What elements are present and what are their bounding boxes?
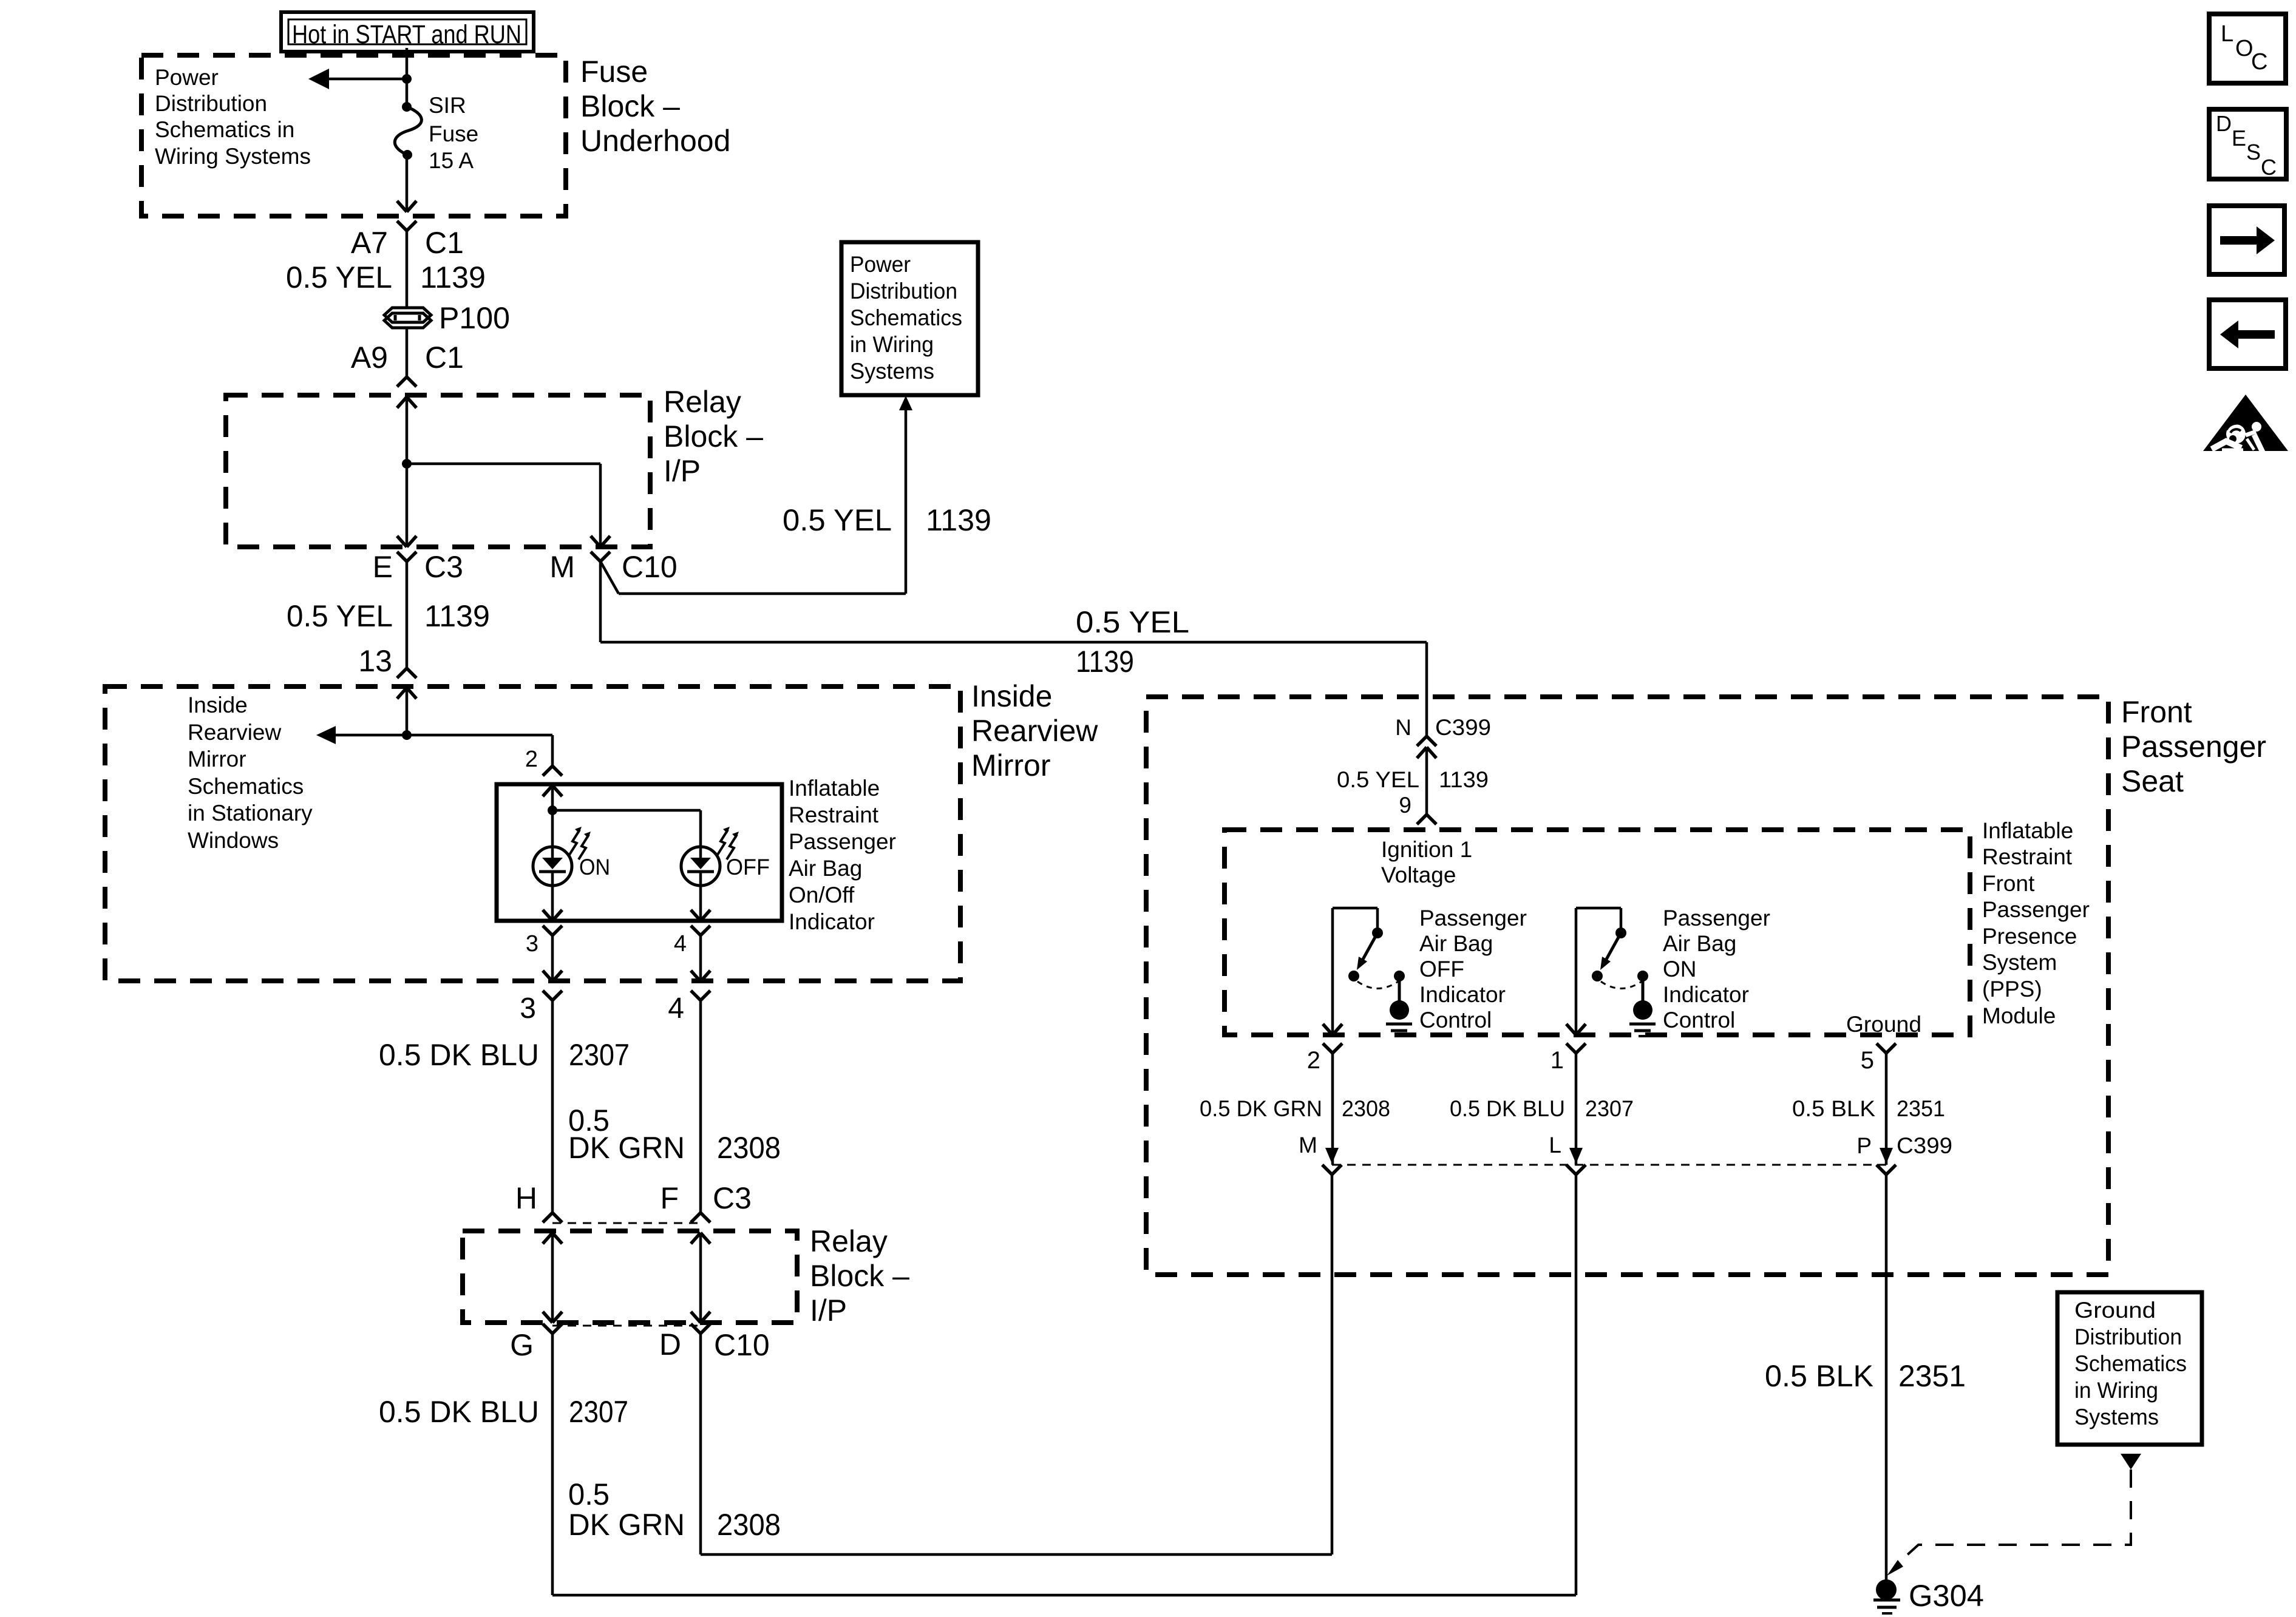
- svg-text:15 A: 15 A: [429, 148, 474, 173]
- switch: passenger air bag OFF indicator control: [1333, 908, 1405, 1035]
- arrow into relay block at F: [691, 1233, 710, 1244]
- icon: SIR warning triangle: [2203, 395, 2288, 455]
- label circuit 1139 (long feed): [1076, 645, 1134, 679]
- label pin M (C399): [1299, 1133, 1317, 1158]
- label: ON: [579, 855, 610, 880]
- svg-text:Block –: Block –: [664, 419, 763, 453]
- arrow exit indicator pin 3: [543, 910, 562, 921]
- label C10 (pin M): [622, 550, 678, 584]
- svg-text:1139: 1139: [1076, 645, 1134, 679]
- arrow into relay block at H: [543, 1233, 562, 1244]
- pass-through grommet P100: [384, 308, 431, 328]
- label pin E: [373, 550, 393, 584]
- note: Inflatable Restraint Front Passenger Presence System (PPS) Module: [1982, 818, 2090, 1028]
- svg-text:Windows: Windows: [188, 828, 279, 853]
- svg-text:2351: 2351: [1898, 1359, 1966, 1393]
- note: Ground (PPS pin 5): [1846, 1012, 1921, 1037]
- svg-text:Distribution: Distribution: [155, 91, 267, 116]
- svg-text:Seat: Seat: [2121, 764, 2184, 798]
- label circuit 1139 (seat): [1439, 767, 1489, 792]
- svg-text:1139: 1139: [926, 503, 991, 537]
- wire: D drop: [699, 1334, 702, 1554]
- svg-text:2307: 2307: [1585, 1096, 1634, 1121]
- wire: DK BLU drop to relay block: [551, 1000, 554, 1213]
- wire: G drop: [551, 1334, 554, 1595]
- connector C1 break below fuse block: [397, 221, 416, 307]
- label: 0.5 YEL (seat): [1337, 767, 1419, 792]
- svg-text:M: M: [549, 550, 575, 584]
- label pin F: [660, 1181, 679, 1215]
- connector C10 tie line: [552, 1325, 701, 1327]
- connector C1 exit arrow (fuse block): [397, 201, 416, 212]
- svg-text:N: N: [1395, 715, 1411, 740]
- svg-text:1139: 1139: [424, 599, 490, 633]
- connector break below mirror box (left): [543, 991, 562, 1000]
- connector C399 tie line: [1332, 1164, 1886, 1166]
- svg-text:13: 13: [358, 644, 392, 678]
- wire: relay block internal branch to M: [407, 464, 600, 547]
- svg-text:ON: ON: [579, 855, 610, 880]
- ground distribution schematics solid box: [2057, 1292, 2202, 1445]
- label circuit 2308 (lower): [717, 1508, 781, 1542]
- fuse F SIR 15 A: [395, 102, 421, 160]
- label C1 (bottom): [425, 341, 464, 375]
- arrow exit PPS at pin 2: [1323, 1024, 1342, 1035]
- svg-text:Rearview: Rearview: [188, 720, 281, 745]
- arrow: to Inside Rearview Mirror Schematics: [316, 726, 407, 744]
- note: Passenger Air Bag ON Indicator Control: [1663, 906, 1770, 1032]
- svg-text:Wiring Systems: Wiring Systems: [155, 144, 311, 169]
- svg-text:Restraint: Restraint: [1982, 844, 2073, 869]
- svg-text:in Wiring: in Wiring: [2074, 1378, 2158, 1403]
- connector C1 break above relay block: [397, 377, 416, 387]
- wire: PPS pin 1 to C399: [1575, 1053, 1578, 1165]
- wire: through relay block (left): [406, 397, 409, 547]
- connector C3 tie line: [552, 1222, 701, 1224]
- svg-text:Block –: Block –: [580, 89, 680, 123]
- svg-text:D: D: [2216, 111, 2232, 136]
- label pin 5 (PPS): [1861, 1047, 1874, 1074]
- junction: mirror feed node: [402, 730, 412, 740]
- wire: feed from Hot label into fuse block: [406, 48, 409, 107]
- svg-text:A9: A9: [351, 341, 388, 375]
- svg-text:G: G: [510, 1328, 534, 1362]
- connector break below indicator pin 3: [543, 926, 562, 935]
- svg-text:Ground: Ground: [2074, 1298, 2156, 1323]
- svg-text:0.5 YEL: 0.5 YEL: [286, 260, 392, 294]
- label: 0.5 BLK (ground drop): [1765, 1359, 1873, 1393]
- svg-text:Relay: Relay: [664, 385, 741, 419]
- label pin D: [659, 1327, 681, 1361]
- wire: E branch down to mirror: [406, 561, 409, 668]
- svg-text:Air Bag: Air Bag: [1663, 931, 1736, 956]
- wire: M branch jog to upper feed: [600, 561, 906, 594]
- svg-text:DK GRN: DK GRN: [568, 1508, 685, 1542]
- label C3 (pin E): [424, 550, 463, 584]
- svg-text:OFF: OFF: [726, 855, 770, 880]
- svg-text:0.5 DK BLU: 0.5 DK BLU: [1450, 1096, 1565, 1121]
- svg-text:Block –: Block –: [810, 1259, 909, 1293]
- label pin 3 (below mirror box): [520, 992, 536, 1025]
- svg-text:C1: C1: [425, 226, 464, 260]
- svg-text:Ground: Ground: [1846, 1012, 1921, 1037]
- svg-text:0.5 BLK: 0.5 BLK: [1792, 1096, 1875, 1121]
- label circuit 1139 (riser): [926, 503, 991, 537]
- wire: DK GRN rail to PPS pin M: [701, 1175, 1332, 1554]
- svg-text:Control: Control: [1663, 1008, 1735, 1032]
- wire: indicator internal feed: [551, 785, 554, 810]
- svg-text:Passenger: Passenger: [2121, 730, 2266, 764]
- label C399 (pin P): [1897, 1133, 1952, 1158]
- svg-text:2: 2: [525, 747, 538, 772]
- label pin 2 (indicator): [525, 747, 538, 772]
- arrow exit mirror box (right): [691, 971, 710, 981]
- svg-text:4: 4: [674, 931, 687, 957]
- svg-text:Distribution: Distribution: [2074, 1324, 2182, 1349]
- label pin 2 (PPS): [1307, 1047, 1320, 1074]
- svg-text:E: E: [373, 550, 393, 584]
- svg-text:C399: C399: [1897, 1133, 1952, 1158]
- svg-text:H: H: [515, 1181, 537, 1215]
- icon box: left arrow: [2209, 300, 2286, 368]
- label pin N: [1395, 715, 1411, 740]
- svg-text:Power: Power: [850, 252, 911, 277]
- svg-text:Relay: Relay: [810, 1224, 888, 1258]
- svg-text:E: E: [2232, 126, 2246, 151]
- connector C3 break above relay block at F: [691, 1213, 710, 1222]
- label pin 1 (PPS): [1550, 1047, 1564, 1074]
- ground G304: [1873, 1579, 1900, 1613]
- PPS module dashed box: [1224, 830, 1970, 1035]
- label pin 9: [1399, 793, 1411, 818]
- label pin 3 (indicator): [526, 931, 538, 957]
- label pin M: [549, 550, 575, 584]
- ground (OFF control internal): [1386, 1000, 1412, 1036]
- note: Inflatable Restraint Passenger Air Bag On/Off Indicator: [789, 776, 896, 934]
- svg-text:2307: 2307: [569, 1395, 628, 1429]
- power distribution schematics solid box: [841, 242, 978, 395]
- label pin H: [515, 1181, 537, 1215]
- connector break below PPS pin 2: [1323, 1043, 1342, 1053]
- connector break below PPS pin 5: [1877, 1043, 1896, 1053]
- svg-text:C399: C399: [1435, 715, 1491, 740]
- svg-text:P: P: [1856, 1133, 1872, 1158]
- svg-text:C1: C1: [425, 341, 464, 375]
- svg-text:Inflatable: Inflatable: [1982, 818, 2073, 843]
- arrow from ground reference to box: [2121, 1454, 2141, 1470]
- label circuit 2351 (ground drop): [1898, 1359, 1966, 1393]
- arrow exit PPS at pin 1: [1566, 1024, 1586, 1035]
- arrow into Power Distribution Schematics box: [899, 396, 912, 410]
- switch: passenger air bag ON indicator control: [1576, 908, 1648, 1035]
- svg-text:Voltage: Voltage: [1381, 863, 1456, 887]
- svg-text:2351: 2351: [1897, 1096, 1945, 1121]
- label: 0.5 YEL (long feed): [1076, 605, 1189, 639]
- icon box: DESC: [2209, 109, 2286, 180]
- label circuit 2351 (seat): [1897, 1096, 1945, 1121]
- label C3 (relay): [713, 1181, 752, 1215]
- svg-text:Passenger: Passenger: [1663, 906, 1770, 931]
- svg-text:Passenger: Passenger: [789, 829, 896, 854]
- svg-text:S: S: [2246, 140, 2261, 164]
- wire: long feed to front passenger seat: [600, 641, 1427, 644]
- label box: Hot in START and RUN: [281, 12, 534, 52]
- svg-text:Fuse: Fuse: [580, 55, 648, 89]
- svg-text:Ignition 1: Ignition 1: [1381, 837, 1472, 862]
- connector C399 arrow at L: [1569, 1148, 1583, 1164]
- svg-text:0.5 YEL: 0.5 YEL: [1076, 605, 1189, 639]
- svg-text:5: 5: [1861, 1047, 1874, 1074]
- arrow exit relay block at M: [591, 536, 610, 547]
- note: Ignition 1 Voltage: [1381, 837, 1472, 887]
- svg-text:Schematics: Schematics: [2074, 1351, 2187, 1376]
- svg-text:C3: C3: [713, 1181, 752, 1215]
- label circuit 2307 (upper): [569, 1038, 630, 1072]
- svg-text:0.5 DK GRN: 0.5 DK GRN: [1200, 1096, 1322, 1121]
- junction: indicator internal node: [548, 805, 557, 815]
- svg-text:1: 1: [1550, 1047, 1564, 1074]
- svg-text:Passenger: Passenger: [1419, 906, 1527, 931]
- svg-text:P100: P100: [439, 301, 510, 335]
- inside rearview mirror dashed box: [105, 686, 960, 981]
- label pin A9: [351, 341, 388, 375]
- svg-text:C3: C3: [424, 550, 463, 584]
- indicator solid box: [497, 784, 782, 921]
- note: Passenger Air Bag OFF Indicator Control: [1419, 906, 1527, 1032]
- svg-text:D: D: [659, 1327, 681, 1361]
- svg-text:SIR: SIR: [429, 93, 466, 118]
- ground reference dashed line: [1887, 1470, 2131, 1576]
- svg-text:0.5 YEL: 0.5 YEL: [287, 599, 393, 633]
- svg-text:L: L: [1549, 1133, 1561, 1158]
- svg-text:System: System: [1982, 950, 2057, 975]
- label: DK GRN (upper): [568, 1131, 685, 1165]
- arrow exit relay block at E: [397, 536, 416, 547]
- svg-text:G304: G304: [1909, 1579, 1984, 1613]
- svg-text:Schematics: Schematics: [188, 774, 304, 799]
- connector C399 arrow at P: [1880, 1148, 1893, 1164]
- label: 0.5 DK GRN (seat): [1200, 1096, 1322, 1121]
- connector C399 break at N (upper half): [1417, 736, 1436, 746]
- label circuit 2307 (lower): [569, 1395, 628, 1429]
- label C399 (pin N): [1435, 715, 1491, 740]
- connector break at indicator pin 2: [543, 766, 562, 776]
- svg-text:in Stationary: in Stationary: [188, 801, 313, 825]
- label circuit 2308 (seat): [1342, 1096, 1390, 1121]
- wire: OFF lamp to pin 4: [699, 886, 702, 921]
- wire: internal to ON lamp: [551, 810, 554, 847]
- svg-text:M: M: [1299, 1133, 1317, 1158]
- connector C3 break above relay block at H: [543, 1213, 562, 1222]
- label pin 4 (indicator): [674, 931, 687, 957]
- svg-text:OFF: OFF: [1419, 957, 1464, 981]
- label pin 13: [358, 644, 392, 678]
- wire: P100 to relay block: [406, 328, 409, 377]
- svg-text:Power: Power: [155, 65, 219, 90]
- note: Inside Rearview Mirror Schematics in Stationary Windows: [188, 693, 313, 853]
- label pin G: [510, 1328, 534, 1362]
- wire: mirror feed to pin 2: [407, 735, 552, 766]
- connector C399 arrow at N (lower half): [1417, 747, 1436, 815]
- wire: DK GRN drop to relay block: [699, 1000, 702, 1213]
- svg-text:ON: ON: [1663, 957, 1697, 981]
- label: 0.5 DK BLU (upper): [379, 1038, 539, 1072]
- svg-text:C10: C10: [622, 550, 678, 584]
- label pin 4 (below mirror box): [668, 992, 684, 1025]
- icon box: right arrow: [2209, 206, 2284, 274]
- svg-text:Systems: Systems: [2074, 1405, 2159, 1429]
- svg-text:0.5 YEL: 0.5 YEL: [783, 503, 892, 537]
- svg-text:Systems: Systems: [850, 359, 934, 384]
- label: G304: [1909, 1579, 1984, 1613]
- svg-text:1139: 1139: [1439, 767, 1489, 792]
- svg-text:Inside: Inside: [971, 679, 1052, 713]
- note: Ground Distribution Schematics in Wiring Systems: [2074, 1298, 2187, 1429]
- label: 0.5 (DK GRN lower): [568, 1477, 610, 1511]
- svg-text:Air Bag: Air Bag: [1419, 931, 1493, 956]
- label: Relay Block - I/P (upper): [664, 385, 763, 488]
- connector C10 break at D: [691, 1324, 710, 1334]
- svg-text:Air Bag: Air Bag: [789, 856, 862, 881]
- svg-text:L: L: [2221, 21, 2233, 47]
- wire: DK BLU rail to PPS pin L: [552, 1175, 1576, 1595]
- wire: ground drop from P: [1885, 1175, 1888, 1580]
- note: Power Distribution Schematics in Wiring Systems (box): [850, 252, 962, 384]
- fuse block - underhood dashed box: [141, 55, 566, 216]
- svg-text:Inside: Inside: [188, 693, 248, 717]
- svg-text:Inflatable: Inflatable: [789, 776, 880, 801]
- connector C399 break below L: [1566, 1165, 1586, 1175]
- label pin P (C399): [1856, 1133, 1872, 1158]
- LED OFF lamp: [681, 847, 720, 886]
- svg-text:2308: 2308: [717, 1131, 781, 1165]
- label: 0.5 (DK GRN upper): [568, 1103, 610, 1137]
- connector C10 break at G: [543, 1324, 562, 1334]
- label circuit 1139 (top): [420, 260, 486, 294]
- wire: seat feed drop: [1425, 642, 1428, 736]
- arrow into relay block at A9: [397, 397, 416, 408]
- svg-text:2308: 2308: [1342, 1096, 1390, 1121]
- label: OFF: [726, 855, 770, 880]
- connector C399 break below P: [1877, 1165, 1896, 1175]
- label: Front Passenger Seat (title): [2121, 695, 2266, 798]
- label: P100: [439, 301, 510, 335]
- svg-text:3: 3: [520, 992, 536, 1025]
- arrow exit relay block at G: [543, 1312, 562, 1323]
- svg-text:Front: Front: [1982, 871, 2035, 896]
- svg-text:Rearview: Rearview: [971, 714, 1098, 748]
- label: 0.5 DK BLU (lower): [379, 1395, 539, 1429]
- svg-text:Module: Module: [1982, 1003, 2056, 1028]
- connector break below indicator pin 4: [691, 926, 710, 935]
- svg-text:0.5 BLK: 0.5 BLK: [1765, 1359, 1873, 1393]
- svg-text:2307: 2307: [569, 1038, 630, 1072]
- label C10 (relay lower): [714, 1328, 770, 1362]
- label pin L (C399): [1549, 1133, 1561, 1158]
- svg-text:Fuse: Fuse: [429, 121, 478, 146]
- label: DK GRN (lower): [568, 1508, 685, 1542]
- svg-text:I/P: I/P: [664, 454, 701, 488]
- svg-text:On/Off: On/Off: [789, 883, 855, 907]
- junction inside relay block: [402, 459, 412, 469]
- ground (ON control internal): [1629, 1000, 1656, 1036]
- wire: internal branch to OFF lamp: [552, 810, 701, 847]
- svg-text:0.5 DK BLU: 0.5 DK BLU: [379, 1038, 539, 1072]
- svg-text:0.5 YEL: 0.5 YEL: [1337, 767, 1419, 792]
- svg-text:DK GRN: DK GRN: [568, 1131, 685, 1165]
- svg-text:Underhood: Underhood: [580, 124, 730, 158]
- connector C399 break below M: [1322, 1165, 1342, 1175]
- svg-text:Indicator: Indicator: [789, 909, 875, 934]
- wire: riser to Power Distribution Schematics box: [905, 409, 908, 594]
- label circuit 2307 (seat): [1585, 1096, 1634, 1121]
- svg-text:Hot in START and RUN: Hot in START and RUN: [292, 20, 521, 49]
- note: Power Distribution Schematics in Wiring Systems: [155, 65, 311, 169]
- svg-text:Mirror: Mirror: [188, 747, 246, 771]
- svg-text:4: 4: [668, 992, 684, 1025]
- svg-text:2: 2: [1307, 1047, 1320, 1074]
- svg-text:Schematics in: Schematics in: [155, 117, 294, 142]
- label: 0.5 YEL (riser): [783, 503, 892, 537]
- wire: ON lamp to pin 3: [551, 886, 554, 921]
- label: 0.5 DK BLU (seat): [1450, 1096, 1565, 1121]
- junction: fuse feed node: [402, 74, 412, 84]
- svg-text:C10: C10: [714, 1328, 770, 1362]
- svg-text:1139: 1139: [420, 260, 486, 294]
- relay block I/P dashed box (lower): [463, 1231, 797, 1323]
- arrow into mirror box: [397, 688, 416, 699]
- svg-text:Indicator: Indicator: [1419, 982, 1506, 1007]
- svg-text:Control: Control: [1419, 1008, 1492, 1032]
- svg-text:(PPS): (PPS): [1982, 977, 2042, 1002]
- svg-text:C: C: [2261, 155, 2277, 180]
- svg-text:in Wiring: in Wiring: [850, 332, 934, 357]
- svg-text:I/P: I/P: [810, 1293, 847, 1327]
- svg-text:0.5 DK BLU: 0.5 DK BLU: [379, 1395, 539, 1429]
- wire: pin 4 to mirror box edge: [699, 935, 702, 981]
- wire: pin 3 to mirror box edge: [551, 935, 554, 981]
- connector break below mirror box (right): [691, 991, 710, 1000]
- connector break above mirror box: [397, 668, 416, 678]
- connector break above PPS module pin 9: [1417, 815, 1436, 824]
- label C1 (top): [425, 226, 464, 260]
- svg-text:Schematics: Schematics: [850, 305, 962, 330]
- label circuit 2308 (upper): [717, 1131, 781, 1165]
- label: 0.5 YEL (E branch): [287, 599, 393, 633]
- icon box: LOC: [2209, 14, 2286, 83]
- svg-text:0.5: 0.5: [568, 1477, 610, 1511]
- wire: PPS pin 5 to C399: [1885, 1053, 1888, 1165]
- relay block I/P dashed box (upper): [226, 395, 650, 547]
- wire: fuse to C1 connector: [406, 155, 409, 212]
- front passenger seat dashed box: [1146, 697, 2108, 1275]
- svg-text:Restraint: Restraint: [789, 802, 879, 827]
- arrow exit mirror box (left): [543, 971, 562, 981]
- connector break below PPS pin 1: [1566, 1043, 1586, 1053]
- svg-text:9: 9: [1399, 793, 1411, 818]
- svg-text:F: F: [660, 1181, 679, 1215]
- connector C3 break at pin E: [397, 552, 416, 561]
- label: SIR Fuse 15 A: [429, 93, 478, 173]
- connector C399 arrow at M: [1325, 1148, 1339, 1164]
- arrow exit relay block at D: [691, 1312, 710, 1323]
- label: Relay Block - I/P (lower): [810, 1224, 909, 1327]
- lightning arrows (ON lamp): [569, 827, 591, 859]
- svg-text:Passenger: Passenger: [1982, 897, 2090, 922]
- arrow: to Power Distribution Schematics: [308, 69, 407, 89]
- arrow exit indicator pin 4: [691, 910, 710, 921]
- LED ON lamp: [533, 847, 572, 886]
